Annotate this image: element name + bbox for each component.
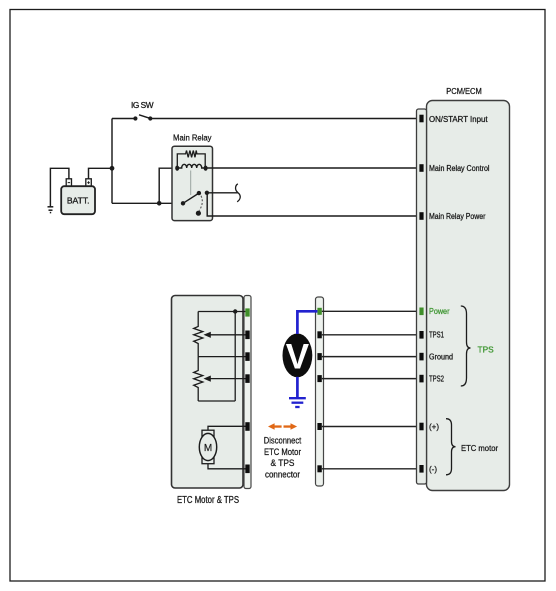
svg-text:connector: connector <box>265 469 300 479</box>
node B junction dot <box>157 201 162 206</box>
wire IG SW to PCM ON/START input <box>150 118 419 120</box>
wire TPS supply (top) <box>198 311 246 313</box>
svg-text:IG SW: IG SW <box>131 100 154 110</box>
harness connector strip <box>316 297 324 486</box>
wire relay output to PCM Main Relay Power <box>207 193 420 216</box>
ETC motor group brace <box>446 419 456 475</box>
wire motor minus <box>208 464 247 469</box>
wire relay output to connector stub <box>207 192 238 194</box>
PCM pins <box>419 115 423 473</box>
PCM connector bar <box>417 109 427 484</box>
voltmeter ground (blue) <box>289 398 306 407</box>
wire TPS1 harness to PCM <box>322 334 420 336</box>
svg-text:ETC Motor & TPS: ETC Motor & TPS <box>177 495 239 506</box>
wire TPS supply right vertical <box>234 312 236 402</box>
disconnect note text <box>264 435 302 479</box>
switch IG SW <box>133 115 152 121</box>
svg-text:PCM/ECM: PCM/ECM <box>446 86 482 96</box>
svg-text:(+): (+) <box>429 423 439 432</box>
wire TPS bottom <box>198 400 235 402</box>
wire node B to relay coil left <box>159 168 177 203</box>
wire junction A vertical (IG SW line to relay common line) <box>111 119 113 204</box>
node TPS supply dot <box>233 309 237 313</box>
svg-text:Main Relay Power: Main Relay Power <box>429 212 486 221</box>
ETC connector bar <box>244 296 251 489</box>
svg-text:(-): (-) <box>429 465 437 474</box>
svg-text:Disconnect: Disconnect <box>264 435 302 445</box>
svg-text:TPS2: TPS2 <box>429 375 444 384</box>
wire motor plus <box>208 426 247 430</box>
wire relay coil right to PCM Main Relay Control <box>206 167 420 169</box>
relay armature link <box>190 171 192 196</box>
svg-text:TPS: TPS <box>478 344 495 354</box>
svg-text:ETC Motor: ETC Motor <box>264 447 301 457</box>
PCM pin labels <box>429 115 490 474</box>
op PCM/ECM box <box>427 101 510 491</box>
motor M <box>199 430 216 463</box>
wire motor minus harness to PCM <box>322 468 420 470</box>
svg-text:& TPS: & TPS <box>271 458 295 468</box>
wire TPS ground (mid) <box>198 356 246 358</box>
ETC Motor & TPS box <box>172 296 244 489</box>
resistor (relay parallel resistor) <box>177 151 205 169</box>
wire TPS2 harness to PCM <box>322 378 420 380</box>
wire battery positive to junction A <box>89 168 113 179</box>
disconnect arrows (orange) <box>268 423 297 430</box>
svg-text:ETC motor: ETC motor <box>461 443 498 453</box>
wire battery feed to relay switch common <box>112 202 183 204</box>
wire Ground harness to PCM <box>322 356 420 358</box>
svg-text:TPS1: TPS1 <box>429 331 444 340</box>
TPS1 wiper arrow <box>204 332 247 338</box>
svg-text:Main Relay: Main Relay <box>173 132 212 142</box>
wire motor plus harness to PCM <box>322 426 420 428</box>
resistor TPS2 track <box>194 357 203 401</box>
connector stub squiggle <box>236 184 241 202</box>
ETC connector pins <box>245 308 249 473</box>
svg-text:Ground: Ground <box>429 353 453 362</box>
svg-text:M: M <box>204 443 212 454</box>
resistor TPS1 track <box>194 312 203 357</box>
relay switch <box>181 191 209 216</box>
svg-text:Power: Power <box>429 307 450 316</box>
wire Power harness to PCM <box>322 310 420 312</box>
svg-text:V: V <box>286 338 310 377</box>
voltmeter V <box>283 334 313 378</box>
wire voltmeter to ground (blue) <box>296 377 299 397</box>
node A junction dot <box>110 166 115 171</box>
svg-text:Main Relay Control: Main Relay Control <box>429 164 490 173</box>
wire battery negative to ground <box>50 168 69 206</box>
svg-text:ON/START Input: ON/START Input <box>429 115 488 124</box>
wire voltmeter to Power pin (blue) <box>297 311 317 334</box>
TPS group brace <box>461 306 471 386</box>
battery ground <box>48 207 54 213</box>
battery BATT. <box>61 179 95 214</box>
TPS2 wiper arrow <box>204 376 247 382</box>
relay box <box>172 146 213 220</box>
svg-text:BATT.: BATT. <box>67 196 90 206</box>
harness connector pins <box>317 308 321 473</box>
wire to IG SW <box>112 118 135 120</box>
relay coil L1 <box>175 164 207 170</box>
